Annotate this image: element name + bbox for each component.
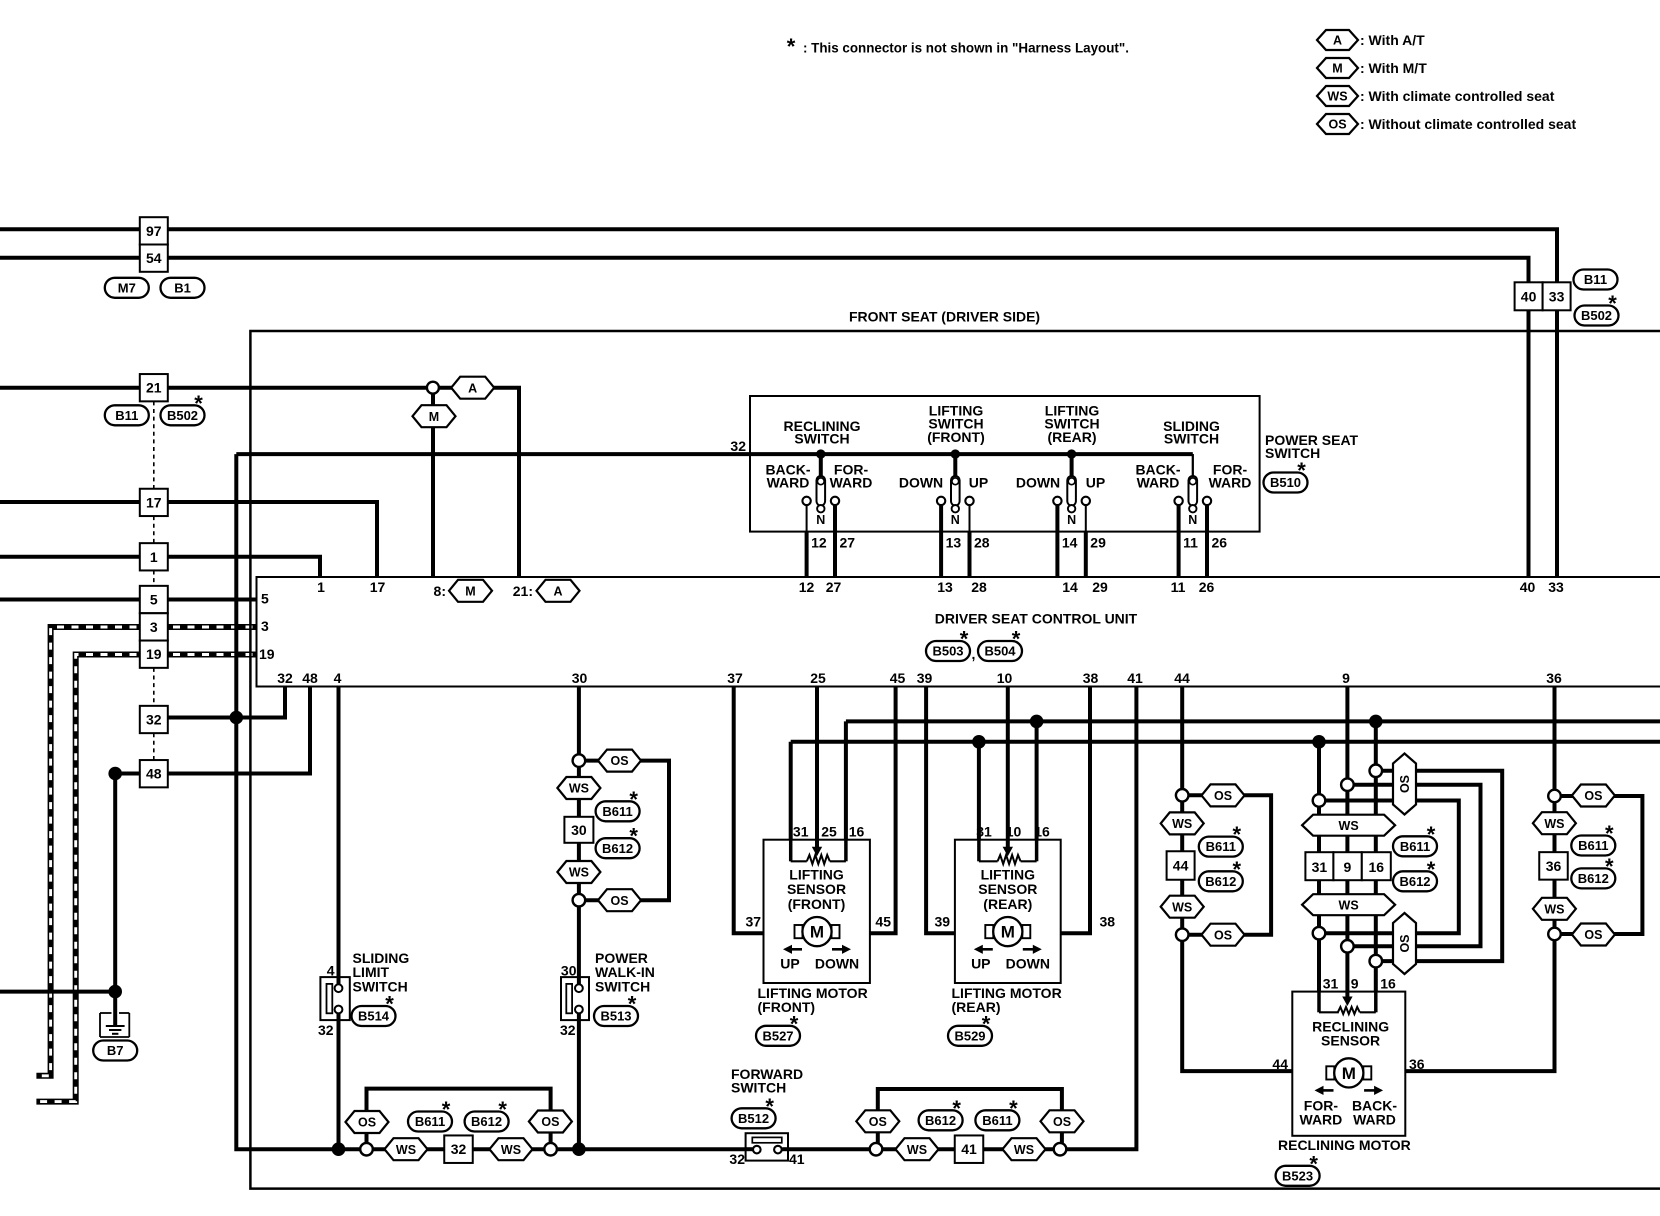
svg-text:26: 26	[1199, 579, 1215, 595]
svg-text:8:: 8:	[434, 583, 446, 599]
svg-text:*: *	[1427, 822, 1436, 847]
svg-text:OS: OS	[1398, 775, 1412, 793]
svg-text:4: 4	[334, 670, 342, 686]
svg-text:WARD: WARD	[1353, 1112, 1396, 1128]
svg-text:*: *	[1309, 1151, 1318, 1176]
svg-text:13: 13	[937, 579, 953, 595]
svg-text:*: *	[1009, 1096, 1018, 1121]
svg-text:5: 5	[261, 591, 269, 607]
svg-text:SWITCH: SWITCH	[794, 431, 849, 447]
svg-text:9: 9	[1351, 976, 1359, 992]
svg-text:WS: WS	[907, 1143, 927, 1157]
svg-text:9: 9	[1342, 670, 1350, 686]
svg-text:M: M	[810, 923, 824, 942]
svg-text:,: ,	[972, 646, 976, 662]
svg-text:33: 33	[1548, 579, 1564, 595]
svg-text:97: 97	[146, 223, 162, 239]
svg-text:36: 36	[1409, 1056, 1425, 1072]
svg-text:31: 31	[1323, 976, 1339, 992]
svg-text:54: 54	[146, 250, 162, 266]
svg-text:WS: WS	[1172, 900, 1192, 914]
svg-text:30: 30	[561, 963, 577, 979]
svg-text:M7: M7	[118, 280, 136, 295]
svg-text:17: 17	[146, 494, 162, 510]
svg-text:WS: WS	[1172, 817, 1192, 831]
svg-text:*: *	[982, 1011, 991, 1036]
svg-text:4: 4	[327, 963, 335, 979]
svg-text:B611: B611	[1400, 839, 1430, 854]
svg-text:39: 39	[917, 670, 933, 686]
svg-text:: With A/T: : With A/T	[1360, 32, 1425, 48]
svg-text:SWITCH: SWITCH	[1265, 445, 1320, 461]
svg-text:OS: OS	[1053, 1115, 1071, 1129]
svg-text:*: *	[1605, 821, 1614, 846]
svg-text:41: 41	[961, 1141, 977, 1157]
svg-text:*: *	[1427, 857, 1436, 882]
svg-text:*: *	[1233, 822, 1242, 847]
svg-text:DOWN: DOWN	[1016, 475, 1060, 491]
svg-text:SENSOR: SENSOR	[1321, 1033, 1380, 1049]
svg-text:16: 16	[1034, 824, 1050, 840]
svg-text:*: *	[1233, 857, 1242, 882]
svg-text:9: 9	[1344, 859, 1352, 875]
svg-text:A: A	[553, 584, 562, 598]
svg-text:16: 16	[1369, 859, 1385, 875]
svg-text:OS: OS	[1584, 928, 1602, 942]
svg-text:FRONT SEAT (DRIVER SIDE): FRONT SEAT (DRIVER SIDE)	[849, 309, 1040, 325]
svg-text:WS: WS	[1339, 898, 1359, 912]
svg-text:UP: UP	[971, 956, 990, 972]
svg-text:UP: UP	[969, 475, 988, 491]
svg-text:10: 10	[1006, 824, 1022, 840]
svg-text:*: *	[194, 391, 203, 416]
svg-text:OS: OS	[1214, 928, 1232, 942]
svg-text:45: 45	[875, 914, 891, 930]
svg-text:33: 33	[1549, 288, 1565, 304]
svg-text:12: 12	[811, 535, 827, 551]
svg-text:B611: B611	[982, 1113, 1012, 1128]
svg-text:DRIVER SEAT CONTROL UNIT: DRIVER SEAT CONTROL UNIT	[935, 611, 1138, 627]
svg-text:36: 36	[1546, 670, 1562, 686]
svg-text:B611: B611	[415, 1114, 445, 1129]
svg-text:38: 38	[1100, 914, 1116, 930]
svg-text:44: 44	[1173, 858, 1189, 874]
svg-text:A: A	[468, 381, 477, 395]
svg-text:19: 19	[259, 646, 275, 662]
svg-text:N: N	[816, 513, 825, 527]
svg-text:WS: WS	[1327, 90, 1347, 104]
svg-text:UP: UP	[780, 956, 799, 972]
svg-text:16: 16	[849, 824, 865, 840]
svg-text:19: 19	[146, 646, 162, 662]
svg-text:21: 21	[146, 380, 162, 396]
svg-text:WARD: WARD	[1300, 1112, 1343, 1128]
svg-text:SWITCH: SWITCH	[731, 1079, 786, 1095]
svg-text:31: 31	[976, 824, 992, 840]
svg-text:32: 32	[146, 712, 162, 728]
svg-text:14: 14	[1062, 579, 1078, 595]
svg-text:OS: OS	[1214, 789, 1232, 803]
svg-text:32: 32	[318, 1022, 334, 1038]
svg-text:28: 28	[974, 535, 990, 551]
svg-text:B1: B1	[174, 280, 191, 295]
svg-text:(REAR): (REAR)	[983, 896, 1032, 912]
svg-text:*: *	[1012, 627, 1021, 652]
svg-text:*: *	[1297, 458, 1306, 483]
svg-text:40: 40	[1520, 579, 1536, 595]
svg-text:45: 45	[890, 670, 906, 686]
svg-text:12: 12	[799, 579, 815, 595]
svg-text:29: 29	[1090, 535, 1106, 551]
svg-text:WS: WS	[1544, 817, 1564, 831]
svg-text:B611: B611	[1578, 838, 1608, 853]
svg-text:B11: B11	[115, 408, 138, 423]
svg-text:32: 32	[560, 1022, 576, 1038]
svg-text:28: 28	[971, 579, 987, 595]
svg-text:32: 32	[277, 670, 293, 686]
svg-text:M: M	[465, 584, 475, 598]
svg-text:WS: WS	[1014, 1143, 1034, 1157]
svg-text:*: *	[385, 992, 394, 1017]
svg-text:DOWN: DOWN	[815, 956, 859, 972]
svg-text:B7: B7	[107, 1043, 124, 1058]
svg-text:31: 31	[1312, 859, 1328, 875]
svg-text:11: 11	[1171, 579, 1186, 595]
svg-text:(FRONT): (FRONT)	[758, 999, 816, 1015]
svg-text:30: 30	[571, 822, 587, 838]
svg-text:M: M	[1001, 923, 1015, 942]
svg-text:WS: WS	[1544, 902, 1564, 916]
svg-text:44: 44	[1174, 670, 1190, 686]
svg-text:39: 39	[935, 914, 951, 930]
svg-text:(REAR): (REAR)	[952, 999, 1001, 1015]
svg-text:*: *	[498, 1097, 507, 1122]
svg-text:WS: WS	[569, 782, 589, 796]
svg-text:32: 32	[729, 1151, 745, 1167]
svg-text:41: 41	[789, 1151, 805, 1167]
svg-text:27: 27	[840, 535, 856, 551]
svg-text:SWITCH: SWITCH	[353, 978, 408, 994]
svg-text:B611: B611	[602, 804, 632, 819]
svg-text:48: 48	[146, 766, 162, 782]
svg-text:SWITCH: SWITCH	[595, 978, 650, 994]
svg-text:*: *	[790, 1011, 799, 1036]
svg-text:*: *	[952, 1096, 961, 1121]
svg-text:SWITCH: SWITCH	[1164, 431, 1219, 447]
svg-text:11: 11	[1183, 535, 1198, 551]
svg-text:OS: OS	[610, 894, 628, 908]
svg-text:31: 31	[793, 824, 809, 840]
svg-text:1: 1	[150, 549, 158, 565]
svg-text:41: 41	[1127, 670, 1143, 686]
svg-text:17: 17	[370, 579, 386, 595]
svg-text:*: *	[442, 1097, 451, 1122]
svg-text:N: N	[1188, 513, 1197, 527]
svg-text:*: *	[628, 992, 637, 1017]
svg-text:13: 13	[946, 535, 962, 551]
svg-text:WARD: WARD	[1137, 475, 1180, 491]
svg-text:OS: OS	[1398, 934, 1412, 952]
svg-text:OS: OS	[610, 754, 628, 768]
svg-text:32: 32	[730, 438, 746, 454]
svg-text:*: *	[1605, 854, 1614, 879]
svg-text:37: 37	[746, 914, 762, 930]
svg-text:36: 36	[1546, 858, 1562, 874]
svg-text:OS: OS	[1328, 118, 1346, 132]
svg-text:37: 37	[727, 670, 743, 686]
svg-text:29: 29	[1092, 579, 1108, 595]
svg-text:*: *	[765, 1094, 774, 1119]
svg-text:21:: 21:	[513, 583, 533, 599]
svg-text:UP: UP	[1086, 475, 1105, 491]
svg-text:A: A	[1333, 34, 1342, 48]
svg-text:: With M/T: : With M/T	[1360, 60, 1427, 76]
svg-text:3: 3	[261, 618, 269, 634]
svg-text:*: *	[787, 34, 796, 59]
svg-text:: This connector is not shown: : This connector is not shown in "Harnes…	[803, 41, 1129, 56]
svg-text:*: *	[629, 824, 638, 849]
svg-text:16: 16	[1380, 976, 1396, 992]
svg-text:WARD: WARD	[767, 475, 810, 491]
svg-text:25: 25	[810, 670, 826, 686]
svg-text:30: 30	[572, 670, 588, 686]
svg-text:(FRONT): (FRONT)	[927, 429, 985, 445]
svg-text:RECLINING MOTOR: RECLINING MOTOR	[1278, 1137, 1411, 1153]
svg-text:5: 5	[150, 592, 158, 608]
svg-text:*: *	[960, 627, 969, 652]
svg-text:*: *	[1608, 291, 1617, 316]
svg-text:M: M	[1332, 62, 1342, 76]
svg-text:: Without climate controlled s: : Without climate controlled seat	[1360, 116, 1576, 132]
svg-text:WS: WS	[1339, 819, 1359, 833]
svg-text:14: 14	[1062, 535, 1078, 551]
svg-text:B11: B11	[1584, 272, 1607, 287]
svg-text:32: 32	[451, 1141, 467, 1157]
svg-text:1: 1	[317, 579, 325, 595]
svg-text:N: N	[951, 513, 960, 527]
svg-text:WS: WS	[501, 1143, 521, 1157]
svg-text:SENSOR: SENSOR	[787, 881, 846, 897]
svg-text:(FRONT): (FRONT)	[788, 896, 846, 912]
svg-text:48: 48	[302, 670, 318, 686]
svg-text:WS: WS	[396, 1143, 416, 1157]
svg-text:(REAR): (REAR)	[1048, 429, 1097, 445]
svg-text:25: 25	[821, 824, 837, 840]
svg-text:27: 27	[826, 579, 842, 595]
svg-text:M: M	[1342, 1064, 1356, 1083]
svg-text:*: *	[629, 787, 638, 812]
svg-text:WS: WS	[569, 866, 589, 880]
svg-text:B611: B611	[1206, 839, 1236, 854]
svg-text:OS: OS	[358, 1116, 376, 1130]
svg-text:DOWN: DOWN	[899, 475, 943, 491]
svg-text:3: 3	[150, 619, 158, 635]
svg-text:: With climate controlled seat: : With climate controlled seat	[1360, 88, 1555, 104]
svg-text:10: 10	[997, 670, 1013, 686]
svg-text:OS: OS	[541, 1115, 559, 1129]
svg-text:44: 44	[1272, 1056, 1288, 1072]
svg-text:40: 40	[1521, 288, 1537, 304]
svg-text:N: N	[1067, 513, 1076, 527]
svg-text:M: M	[429, 410, 439, 424]
svg-text:26: 26	[1212, 535, 1228, 551]
svg-text:OS: OS	[869, 1115, 887, 1129]
svg-text:WARD: WARD	[830, 475, 873, 491]
svg-text:DOWN: DOWN	[1006, 956, 1050, 972]
svg-text:SENSOR: SENSOR	[978, 881, 1037, 897]
svg-text:WARD: WARD	[1209, 475, 1252, 491]
svg-text:38: 38	[1083, 670, 1099, 686]
svg-text:OS: OS	[1584, 789, 1602, 803]
